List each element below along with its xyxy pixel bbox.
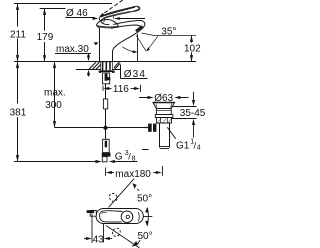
deck bottom line bbox=[76, 69, 120, 71]
dimension 116 bbox=[103, 85, 141, 92]
arrow 211 bottom bbox=[16, 55, 19, 61]
drain flange shading bbox=[156, 104, 172, 108]
plan rod stub bbox=[90, 210, 96, 216]
drain flange bbox=[153, 103, 175, 109]
dimension line max300 bbox=[54, 62, 56, 128]
plan capsule body outline bbox=[96, 209, 143, 224]
threaded shank through deck bbox=[101, 62, 113, 71]
dimension 35-45 bbox=[171, 92, 196, 138]
arc end arrow top bbox=[145, 207, 148, 213]
rod junction dot bbox=[103, 125, 109, 131]
dimension max180 bbox=[106, 166, 163, 176]
ext line 35-45 top bbox=[171, 106, 196, 108]
extension line top 211 bbox=[14, 3, 112, 5]
arrow 179 top bbox=[43, 9, 46, 15]
Ø34 leader vertical bbox=[120, 65, 122, 79]
PLAN VIEW bbox=[87, 179, 155, 248]
leader from 35 label bbox=[148, 36, 158, 49]
tick 116 left bbox=[102, 86, 104, 91]
label Ø63 bbox=[139, 96, 189, 99]
svg-text:102: 102 bbox=[184, 43, 201, 54]
floating dash near pipe bottom bbox=[142, 149, 149, 151]
supply hose fitting bbox=[103, 139, 110, 152]
svg-text:max.: max. bbox=[44, 88, 66, 99]
svg-text:43: 43 bbox=[93, 235, 105, 246]
svg-text:300: 300 bbox=[45, 100, 62, 111]
pop-up rod horizontal line bbox=[55, 127, 149, 129]
arrow 211 top bbox=[16, 4, 19, 10]
upper leg with down arrow bbox=[193, 92, 195, 101]
lever tip loop bbox=[133, 7, 139, 11]
lever top dark band bbox=[101, 7, 135, 17]
dimension line 211 and 381 bbox=[17, 4, 19, 162]
arrow 116 right bbox=[131, 88, 136, 90]
cartridge dome cap bbox=[96, 19, 118, 26]
svg-text:Ø63: Ø63 bbox=[154, 93, 173, 104]
ext line 43 left bbox=[91, 214, 93, 244]
svg-text:4: 4 bbox=[197, 144, 201, 151]
hose end bbox=[102, 157, 107, 162]
dome rim lower line bbox=[98, 27, 118, 28]
arc arrow upper bbox=[132, 183, 136, 189]
arrow 179 bottom bbox=[43, 55, 46, 61]
dashed leader Ø46 bbox=[102, 0, 123, 15]
hose nut bbox=[102, 153, 111, 157]
plan centerline dash right bbox=[144, 216, 153, 218]
label 102 background bbox=[183, 43, 201, 53]
angle arc 50 bbox=[147, 208, 150, 226]
arrow at hose bottom left bbox=[95, 160, 101, 163]
swivel ray lower bbox=[106, 226, 139, 248]
tick max180 right bbox=[162, 166, 164, 176]
label 381 background bbox=[9, 104, 29, 118]
svg-text:50°: 50° bbox=[138, 231, 153, 242]
extension line hose bottom bbox=[14, 161, 97, 163]
arrow 381 top bbox=[16, 62, 19, 68]
svg-text:116: 116 bbox=[113, 84, 129, 95]
washer under deck bbox=[99, 71, 115, 73]
label Ø34 bbox=[121, 65, 148, 79]
spout top edge and nose bbox=[113, 20, 145, 32]
dimension line 179 bbox=[44, 9, 46, 62]
pull rod and supply hose bbox=[102, 84, 111, 162]
arc of 35 angle bbox=[122, 47, 134, 52]
small arrow nub at body left edge bbox=[94, 42, 99, 45]
lever width arrow right with tail bbox=[119, 18, 145, 20]
lever handle blade bbox=[99, 6, 140, 20]
svg-text:50°: 50° bbox=[137, 193, 152, 204]
extension line deck top bbox=[14, 61, 196, 63]
arrow 43 left bbox=[84, 238, 87, 240]
arrow 381 bottom bbox=[16, 155, 19, 161]
svg-text:211: 211 bbox=[10, 29, 26, 40]
arc end arrow bottom bbox=[145, 221, 148, 227]
dimension line 102 bbox=[191, 36, 193, 62]
lever stem line bbox=[103, 19, 106, 23]
body left edge bbox=[97, 26, 100, 62]
label Ø46 underline bbox=[66, 17, 96, 19]
Ø34 underline bbox=[121, 78, 148, 80]
lever width arrow left bbox=[93, 18, 94, 20]
drain ring bbox=[155, 115, 173, 118]
label 50 lower background bbox=[137, 229, 156, 241]
arc arrow lower bbox=[132, 241, 138, 247]
shank stub below deck bbox=[103, 73, 110, 84]
G3/8 underline leader bbox=[114, 161, 138, 163]
arrow 43 right bbox=[104, 237, 110, 240]
plan aerator inner circle bbox=[126, 215, 129, 218]
G1 1/4 leader bbox=[167, 127, 175, 138]
arrowhead on spray line bbox=[146, 47, 150, 51]
svg-text:179: 179 bbox=[37, 32, 54, 43]
ext line 43 right bbox=[103, 224, 105, 243]
tick max180 left bbox=[105, 168, 107, 176]
arc fragment lower bbox=[137, 235, 143, 244]
label 211 background bbox=[10, 27, 28, 39]
rod vertical line bbox=[105, 84, 107, 140]
dashed aerator position lower bbox=[111, 227, 122, 238]
plan spout circle bbox=[121, 211, 133, 223]
rod knob bbox=[103, 99, 107, 109]
spray direction line bbox=[136, 35, 146, 51]
tick 116 right bbox=[140, 85, 142, 92]
plan capsule end seam bbox=[137, 212, 140, 221]
svg-text:G: G bbox=[115, 152, 123, 163]
svg-text:Ø34: Ø34 bbox=[124, 69, 147, 80]
arrow 102 top bbox=[190, 36, 193, 42]
extension line top 179 bbox=[40, 8, 66, 10]
spout inner top line bbox=[111, 25, 142, 28]
FAUCET SIDE VIEW bbox=[96, 6, 145, 61]
POP-UP DRAIN bbox=[142, 103, 175, 150]
plan inner left arc bbox=[102, 212, 107, 213]
arrow max300 bottom bbox=[53, 121, 56, 127]
svg-text:8: 8 bbox=[132, 155, 136, 162]
svg-text:Ø 46: Ø 46 bbox=[66, 8, 88, 19]
max.30 arrow to deck top bbox=[88, 54, 90, 57]
label 179 background bbox=[36, 31, 54, 43]
spout underside and body right edge bbox=[113, 33, 137, 62]
deck hatching bbox=[89, 62, 120, 69]
lower leg with up arrow bbox=[193, 125, 195, 138]
tailpipe bbox=[160, 123, 170, 148]
swivel ray upper bbox=[109, 179, 135, 208]
lever right end edge bbox=[113, 15, 115, 19]
svg-text:max180: max180 bbox=[115, 169, 151, 180]
35 degree spray geometry bbox=[122, 33, 196, 62]
arc fragment upper bbox=[137, 189, 143, 198]
tailpipe bottom end bbox=[160, 146, 170, 148]
arrow 116 left bbox=[103, 87, 109, 90]
lever hub ball bbox=[101, 21, 109, 24]
aerator height reference line bbox=[142, 33, 197, 36]
arrow max180 right bbox=[153, 172, 157, 174]
arrow max300 top bbox=[53, 62, 56, 68]
drain body bbox=[156, 109, 171, 115]
arrow max180 left bbox=[106, 171, 112, 174]
ball joint rod bbox=[144, 127, 149, 129]
drain hex nut bbox=[156, 118, 171, 124]
svg-text:35°: 35° bbox=[161, 26, 176, 37]
aerator dark band bbox=[136, 26, 143, 31]
arrow 102 bottom bbox=[190, 55, 193, 61]
svg-text:381: 381 bbox=[10, 108, 27, 119]
dimension 43 bbox=[84, 214, 112, 244]
ext line 35-45 bottom bbox=[172, 118, 197, 120]
arrowhead of arc bbox=[133, 50, 138, 53]
plan inner lever outline bbox=[100, 211, 123, 222]
svg-text:35-45: 35-45 bbox=[180, 108, 206, 119]
label max.30 underline bbox=[55, 53, 91, 55]
arrowhead Ø46 leader bbox=[99, 13, 104, 17]
vertical reference line from aerator bbox=[137, 34, 139, 62]
ball joint block bbox=[148, 124, 152, 132]
svg-text:G1: G1 bbox=[176, 141, 190, 152]
lever underside inner line bbox=[104, 11, 131, 17]
dome bottom rim bbox=[96, 25, 118, 27]
svg-text:max.30: max.30 bbox=[56, 44, 89, 55]
COUNTER DECK bbox=[76, 62, 120, 84]
label G1 1/4 bbox=[167, 127, 175, 138]
label 50 upper background bbox=[136, 191, 155, 203]
label G3/8 bbox=[109, 160, 138, 163]
dashed aerator position upper bbox=[108, 192, 119, 203]
max.30 arrow to deck bottom bbox=[88, 74, 90, 77]
